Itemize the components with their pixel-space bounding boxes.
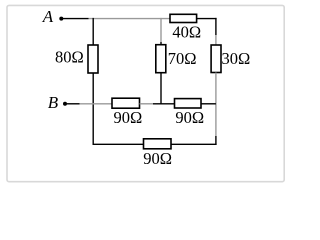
wire: resistor 40Ω to top-right corner (black) — [197, 18, 217, 20]
wire: top rail to resistor 40Ω (grey) — [89, 18, 171, 20]
wire: middle branch stub above resistor 70Ω (black) — [160, 42, 162, 45]
svg-text:A: A — [42, 7, 54, 26]
svg-text:70Ω: 70Ω — [168, 49, 197, 68]
resistor R6 90Ω body (B rail, right) — [175, 99, 202, 108]
resistor R5 90Ω body (B rail, left) — [112, 98, 140, 108]
wire: A terminal stub (black) — [63, 18, 89, 20]
wire: left branch vertical, resistor 80Ω down to bottom rail (black, crosses B rail) — [92, 73, 94, 145]
wire: between the two 90Ω resistors, right part through 70Ω junction (black) — [153, 103, 175, 105]
wire: left branch vertical, top rail down to resistor 80Ω (black) — [92, 18, 94, 46]
resistor R4 30Ω body — [211, 45, 221, 73]
svg-text:40Ω: 40Ω — [172, 22, 201, 41]
wire: bottom rail, bottom resistor 90Ω to right corner (black) — [171, 143, 217, 145]
node A terminal dot — [59, 17, 63, 21]
wire: B terminal stub (black) — [67, 103, 80, 105]
wire: right branch vertical lower stub to bottom rail (black) — [215, 136, 217, 145]
wire: middle branch vertical from top rail (grey) — [160, 18, 162, 42]
node B terminal dot — [63, 102, 67, 106]
wire: right branch vertical below resistor 30Ω (grey) — [215, 73, 217, 137]
wire: middle branch vertical, resistor 70Ω down to B rail junction (black) — [160, 73, 162, 105]
wire: right branch vertical to resistor 30Ω (grey) — [215, 35, 217, 46]
resistor R2 40Ω body — [170, 14, 197, 22]
resistor R7 90Ω body (bottom rail) — [144, 139, 172, 149]
svg-text:80Ω: 80Ω — [55, 48, 84, 67]
wire: right branch vertical upper stub (black) — [215, 18, 217, 35]
wire: B rail to first resistor 90Ω (grey, crosses 80Ω branch) — [80, 103, 113, 105]
wire: second 90Ω to right branch vertical (black) — [201, 103, 216, 105]
wire: bottom rail, left corner to bottom resistor 90Ω (black) — [93, 143, 145, 145]
wire: between the two 90Ω resistors, left part (grey) — [140, 103, 154, 105]
resistor R1 80Ω body — [88, 45, 98, 73]
svg-text:B: B — [48, 93, 59, 112]
svg-text:90Ω: 90Ω — [143, 149, 172, 168]
resistor R3 70Ω body — [156, 45, 166, 73]
svg-text:90Ω: 90Ω — [114, 108, 143, 127]
svg-text:90Ω: 90Ω — [175, 108, 204, 127]
svg-text:30Ω: 30Ω — [222, 49, 251, 68]
